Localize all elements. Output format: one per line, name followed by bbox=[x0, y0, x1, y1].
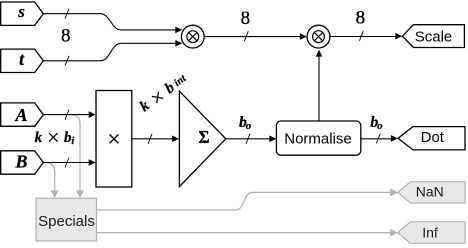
svg-text:8: 8 bbox=[61, 26, 71, 47]
input flag B bbox=[1, 151, 44, 174]
input flag t bbox=[1, 49, 44, 73]
svg-text:B: B bbox=[14, 152, 27, 172]
multiplier node 2 (circled times) bbox=[307, 25, 330, 48]
svg-text:k: k bbox=[35, 130, 43, 146]
bus slash on B wire bbox=[65, 158, 69, 168]
output flag Dot bbox=[398, 127, 465, 150]
wire multiplier node 1 to multiplier node 2 bbox=[204, 33, 307, 40]
bus slash on s wire bbox=[65, 9, 69, 19]
svg-text:8: 8 bbox=[356, 8, 366, 29]
bus slash on t wire bbox=[65, 56, 69, 66]
output flag NaN bbox=[398, 182, 465, 203]
Specials block bbox=[36, 198, 97, 241]
output flag Scale bbox=[403, 25, 465, 48]
Normalise block bbox=[276, 121, 360, 155]
svg-text:Scale: Scale bbox=[415, 28, 453, 45]
wire s to multiplier node bbox=[43, 14, 182, 34]
output flag Inf bbox=[398, 222, 465, 244]
bus slash multiply-sum bbox=[148, 134, 152, 144]
svg-text:Inf: Inf bbox=[422, 224, 438, 240]
wire sum to Normalise bbox=[226, 136, 276, 143]
multiply block bbox=[96, 91, 132, 188]
svg-text:s: s bbox=[17, 2, 25, 21]
input flag s bbox=[1, 2, 44, 26]
svg-text:o: o bbox=[377, 120, 383, 132]
rotated bus width label k x b_int bbox=[137, 70, 191, 115]
bus width label b_o (Normalise-Dot) bbox=[370, 114, 383, 132]
wire A to multiply block bbox=[43, 111, 95, 118]
svg-text:Σ: Σ bbox=[199, 127, 210, 147]
wire Normalise up to multiplier node 2 bbox=[316, 50, 323, 121]
svg-text:Dot: Dot bbox=[421, 129, 445, 146]
wire t to multiplier node bbox=[43, 40, 182, 61]
wire Normalise to Dot bbox=[361, 135, 398, 142]
sum block (sigma triangle) bbox=[179, 91, 225, 186]
bus slash Normalise-Dot bbox=[376, 134, 380, 144]
bus width label b_o (sum-Normalise) bbox=[239, 114, 252, 132]
svg-text:8: 8 bbox=[241, 8, 251, 29]
svg-text:Normalise: Normalise bbox=[284, 131, 352, 148]
wire multiply block to sum bbox=[132, 136, 179, 143]
bus slash sum-Normalise bbox=[246, 134, 250, 144]
multiplier node 1 (circled times) bbox=[181, 25, 204, 48]
gray branch wire from bus A to Specials bbox=[72, 115, 84, 198]
input flag A bbox=[1, 103, 44, 126]
bus slash on A wire bbox=[65, 110, 69, 120]
svg-text:NaN: NaN bbox=[416, 184, 444, 200]
bus width label k x b_i bbox=[35, 130, 75, 147]
svg-text:i: i bbox=[71, 136, 74, 147]
gray wire Specials to NaN flag bbox=[97, 188, 398, 210]
bus slash between node 1 and node 2 bbox=[244, 31, 248, 41]
svg-text:A: A bbox=[14, 105, 27, 125]
svg-text:o: o bbox=[246, 120, 252, 132]
wire multiplier node 2 to Scale bbox=[330, 33, 402, 40]
gray wire Specials to Inf flag bbox=[97, 229, 398, 237]
bus slash between node 2 and Scale bbox=[359, 31, 363, 41]
gray branch wire from bus B to Specials bbox=[47, 163, 59, 198]
svg-text:int: int bbox=[172, 73, 189, 89]
svg-text:k: k bbox=[137, 97, 153, 115]
wire B to multiply block bbox=[43, 159, 95, 166]
svg-text:Specials: Specials bbox=[38, 213, 95, 230]
